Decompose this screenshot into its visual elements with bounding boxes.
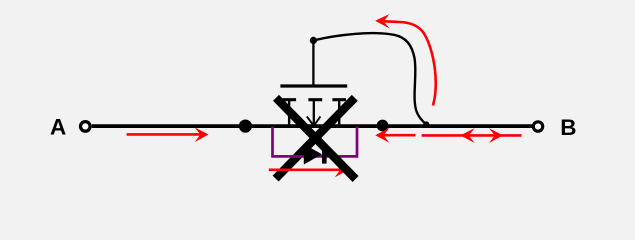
svg-text:A: A [50, 114, 66, 139]
svg-text:B: B [560, 115, 576, 140]
right pair: right-pointing head [489, 128, 503, 143]
right pair: left-pointing head [461, 128, 475, 143]
wire-end dot on drain wire [423, 121, 429, 127]
terminal A (open circle) [81, 122, 91, 132]
current arrow (red) under diode, pointing right [269, 163, 349, 178]
current arrow (red) right of drain node, pointing left [375, 128, 415, 143]
MOSFET Q1 body lead with down arrow [307, 101, 321, 126]
gate drive arrow (red curved), pointing left at top [384, 21, 436, 105]
current arrow pair (red) on right wire: line [422, 134, 522, 137]
current arrow (red) on left wire, pointing right [127, 127, 209, 142]
MOSFET Q1 gate lead [312, 40, 314, 87]
cross-out X stroke 1 (/) [276, 98, 355, 179]
MOSFET Q1 channel bar right [332, 98, 346, 101]
body connection loop (purple) [273, 127, 358, 157]
MOSFET Q1 channel bar left [282, 98, 296, 101]
junction dot left (source node) [239, 120, 252, 133]
body diode D1 cathode bar [322, 145, 327, 164]
MOSFET Q1 drain lead [338, 101, 340, 127]
MOSFET Q1 source lead [288, 101, 290, 127]
gate wire (curved) [313, 33, 426, 124]
junction dot right (drain node) [377, 120, 389, 132]
body diode D1 triangle (anode) [304, 144, 322, 164]
MOSFET Q1 gate bar [280, 84, 347, 87]
cross-out X stroke 2 (\) [276, 98, 356, 179]
gate node dot [310, 37, 317, 44]
wire A-B (main horizontal wire) [92, 124, 532, 128]
terminal B (open circle) [533, 122, 542, 131]
MOSFET Q1 channel bar middle [308, 98, 322, 101]
